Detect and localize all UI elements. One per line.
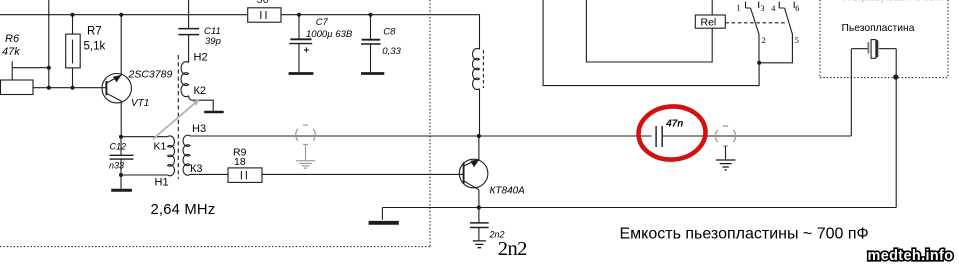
svg-text:2n2: 2n2 [498, 238, 527, 260]
capacitor C7 [289, 15, 312, 72]
transistor VT2 KT840A [459, 159, 488, 190]
wire top supply rail right with corner down to coil [281, 15, 480, 50]
piezo enclosure dotted box [820, 0, 948, 78]
wire capacitor C11 branch from top edge [188, 0, 190, 29]
svg-text:3: 3 [761, 4, 765, 13]
node emitter / K1 top [119, 135, 123, 139]
wire VT2 emitter [478, 190, 480, 208]
inductor top coil [473, 48, 484, 89]
svg-text:56: 56 [257, 0, 269, 6]
capacitor C8 [361, 15, 381, 72]
wire vertical to base node [48, 0, 50, 88]
ghost capacitor position left (dashed circle) [296, 125, 316, 168]
transformer core [177, 55, 179, 179]
relay coil box Rel [695, 0, 725, 28]
svg-text:Емкость пьезопластины ~ 700 пФ: Емкость пьезопластины ~ 700 пФ [620, 225, 869, 242]
svg-text:Ультразвуковая головка: Ультразвуковая головка [843, 0, 943, 3]
capacitor 47n [656, 126, 662, 147]
ground under C8 [361, 72, 384, 75]
relay contact pin 1 [746, 2, 751, 9]
svg-text:39p: 39p [205, 36, 221, 47]
svg-text:K1: K1 [154, 140, 167, 152]
wire emitter node to K1 winding [121, 136, 168, 138]
node piezo lead on enclosure edge [893, 74, 898, 79]
node C8 on rail [369, 13, 373, 17]
relay contact arm 1-2 [751, 8, 760, 63]
wire K2 to ground [189, 96, 214, 111]
node C12 bottom / H1 [119, 173, 123, 177]
svg-text:medteh.info: medteh.info [868, 248, 954, 264]
node relay common [757, 61, 761, 65]
resistor R7 leads [72, 15, 74, 88]
wire R6 to base [33, 87, 106, 89]
svg-text:H3: H3 [192, 123, 206, 135]
svg-text:H1: H1 [155, 177, 169, 189]
svg-text:R7: R7 [87, 26, 102, 38]
svg-text:1: 1 [737, 4, 741, 13]
piezo element wires [851, 48, 896, 50]
wire coil to collector node [479, 89, 481, 136]
capacitor 2n2 [470, 208, 489, 241]
relay contact pin 3 [758, 2, 760, 9]
ghost capacitor position right (dashed circle) [715, 126, 735, 170]
wire VT1 emitter down [120, 101, 122, 137]
svg-text:47n: 47n [665, 119, 683, 130]
ground under 2n2 [473, 241, 486, 248]
tuning arrow (adjustable core) [153, 99, 200, 139]
relay outer wiring loop [543, 0, 759, 86]
wire middle output line [190, 135, 652, 137]
svg-text:Rel: Rel [701, 17, 717, 29]
node emitter junction [477, 205, 481, 209]
wire piezo right lead [895, 49, 897, 208]
resistor 56 (box with power marks) [248, 8, 281, 22]
svg-text:47k: 47k [2, 46, 20, 58]
svg-text:6: 6 [795, 4, 799, 13]
svg-text:5: 5 [795, 36, 799, 45]
wire VT1 collector to rail [120, 15, 122, 76]
wire emitter ground stub [381, 208, 383, 220]
node collector junction [477, 134, 481, 138]
piezo element symbol [868, 40, 879, 59]
wire VT2 collector [478, 136, 480, 160]
annotation red circle around 47n [637, 104, 708, 162]
inductor winding K1-H1 [168, 136, 175, 176]
node R7 bottom [71, 86, 75, 90]
node VT1 collector on rail [119, 13, 123, 17]
svg-text:Пьезопластина: Пьезопластина [842, 23, 915, 34]
svg-text:К2: К2 [194, 85, 207, 97]
wire top supply rail left [0, 14, 248, 16]
relay contact arm 4-5 [759, 8, 792, 63]
resistor R7 body [66, 34, 81, 68]
ground under C12 [111, 175, 132, 190]
svg-text:n33: n33 [109, 161, 124, 171]
capacitor C12 [110, 137, 134, 175]
svg-text:VT1: VT1 [131, 98, 149, 109]
svg-text:C12: C12 [110, 142, 127, 152]
svg-text:R6: R6 [5, 33, 20, 45]
resistor R6 body [1, 80, 34, 95]
inductor winding H2-K2 [181, 62, 189, 97]
ground emitter [369, 221, 399, 225]
relay contact pin 6 [793, 2, 795, 9]
node R7 top on rail [71, 13, 75, 17]
svg-text:C8: C8 [383, 26, 396, 37]
svg-text:2SC3789: 2SC3789 [128, 69, 173, 81]
wire K3 to R9 [190, 173, 228, 175]
inductor winding H3-K3 [183, 135, 190, 175]
svg-text:0,33: 0,33 [382, 46, 401, 57]
svg-text:КТ840А: КТ840А [490, 186, 526, 197]
svg-text:2,64 MHz: 2,64 MHz [151, 202, 216, 218]
svg-text:+: + [304, 46, 310, 57]
selection dotted rectangle [0, 0, 430, 247]
wire bottom return line [382, 207, 896, 209]
relay inner wiring loop [586, 0, 712, 62]
transistor VT1 [102, 74, 131, 103]
wire R9 to VT2 base [262, 173, 464, 175]
svg-text:C7: C7 [316, 17, 329, 28]
relay actuation dashed link [725, 22, 786, 24]
svg-text:5,1k: 5,1k [84, 41, 106, 53]
node base junction [47, 86, 51, 90]
svg-text:1000µ 63В: 1000µ 63В [306, 29, 353, 40]
resistor R9 body [228, 168, 262, 183]
wire middle line right of 47n [662, 135, 851, 137]
ground under C7 [289, 72, 314, 75]
svg-text:К3: К3 [190, 163, 203, 175]
svg-text:18: 18 [234, 156, 246, 168]
wire piezo left lead [850, 49, 852, 136]
wire H1 end of K1 winding [121, 174, 168, 176]
svg-text:H2: H2 [194, 52, 208, 64]
potentiometer R6 wiper [12, 61, 49, 80]
node C7 on rail [297, 13, 301, 17]
capacitor C11 [178, 29, 199, 63]
node wiper junction [47, 66, 51, 70]
ground under K2 [204, 111, 224, 114]
relay contact pin 4 [779, 2, 784, 9]
svg-text:2: 2 [762, 36, 766, 45]
